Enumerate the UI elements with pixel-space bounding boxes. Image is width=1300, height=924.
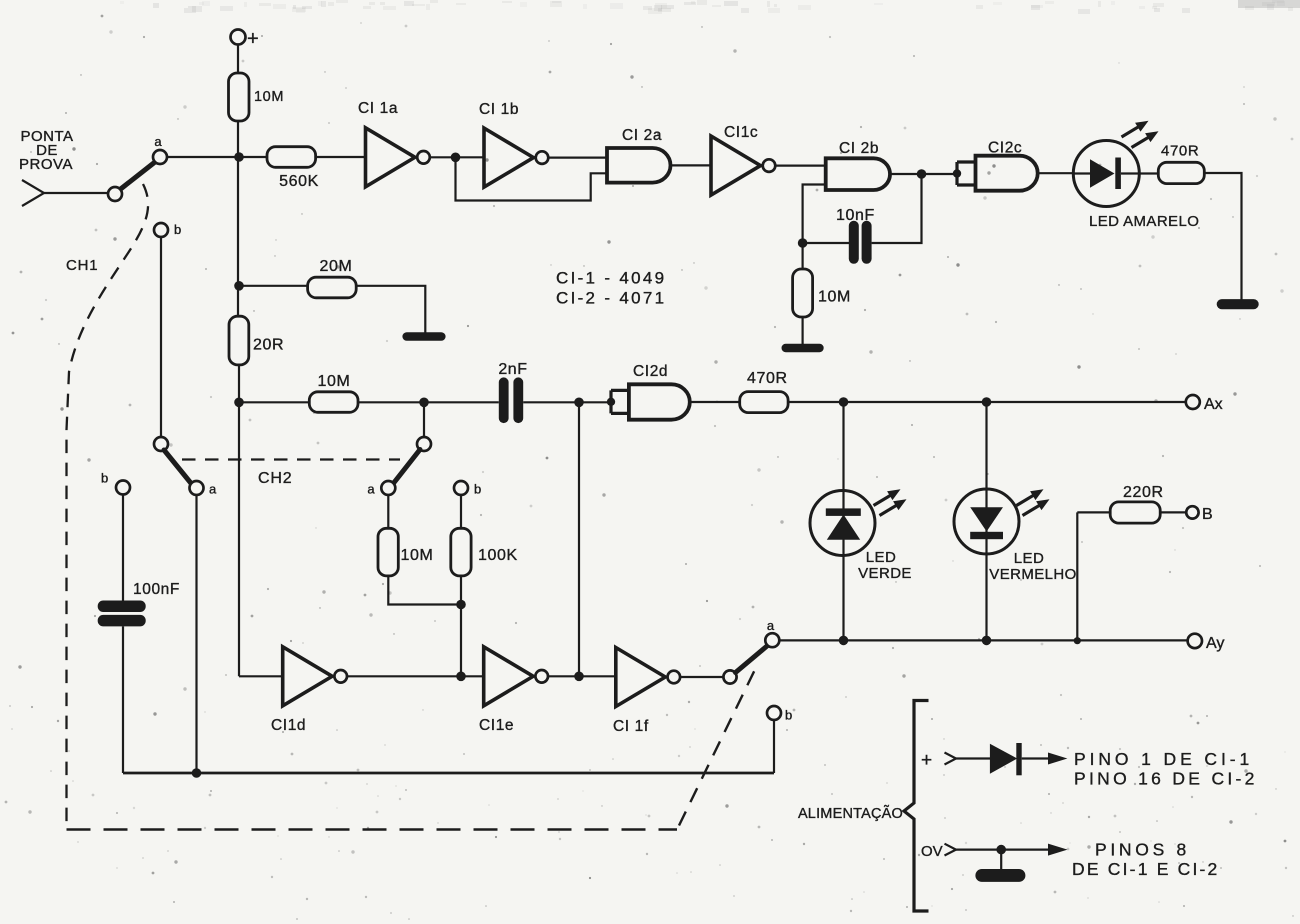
- svg-text:10M: 10M: [401, 547, 434, 564]
- svg-text:CI 2a: CI 2a: [622, 127, 662, 144]
- svg-text:CH1: CH1: [66, 257, 98, 274]
- svg-text:CI-2 - 4071: CI-2 - 4071: [556, 289, 666, 308]
- svg-text:100K: 100K: [478, 547, 518, 564]
- svg-text:PINOS 8: PINOS 8: [1095, 840, 1190, 860]
- svg-text:DE CI-1 E CI-2: DE CI-1 E CI-2: [1072, 859, 1220, 879]
- svg-text:b: b: [101, 471, 108, 486]
- svg-text:CH2: CH2: [258, 470, 292, 487]
- svg-text:PROVA: PROVA: [19, 156, 73, 173]
- svg-text:20M: 20M: [320, 258, 353, 275]
- svg-text:CI 1a: CI 1a: [358, 100, 398, 117]
- svg-text:PINO 1 DE CI-1: PINO 1 DE CI-1: [1074, 749, 1253, 769]
- svg-text:470R: 470R: [747, 370, 788, 387]
- svg-text:CI 2b: CI 2b: [839, 140, 879, 157]
- svg-text:Ay: Ay: [1206, 635, 1224, 652]
- svg-text:+: +: [921, 750, 932, 771]
- svg-text:470R: 470R: [1161, 143, 1199, 160]
- svg-text:a: a: [209, 482, 217, 497]
- svg-text:CI2d: CI2d: [633, 363, 668, 380]
- svg-text:CI 1b: CI 1b: [479, 101, 519, 118]
- svg-text:LED: LED: [1014, 550, 1044, 567]
- svg-text:100nF: 100nF: [133, 581, 180, 598]
- svg-text:b: b: [174, 222, 181, 237]
- svg-text:10nF: 10nF: [836, 207, 875, 224]
- svg-text:VERMELHO: VERMELHO: [989, 566, 1076, 583]
- svg-text:10M: 10M: [254, 89, 284, 105]
- svg-text:PINO 16 DE CI-2: PINO 16 DE CI-2: [1074, 769, 1258, 789]
- svg-text:a: a: [154, 134, 162, 149]
- svg-text:a: a: [367, 482, 375, 497]
- svg-text:OV: OV: [921, 843, 943, 860]
- svg-text:2nF: 2nF: [498, 361, 527, 378]
- svg-text:B: B: [1202, 506, 1213, 523]
- svg-text:10M: 10M: [818, 289, 851, 306]
- svg-text:CI 1f: CI 1f: [613, 718, 649, 735]
- svg-text:LED AMARELO: LED AMARELO: [1089, 213, 1199, 230]
- svg-text:CI1e: CI1e: [479, 717, 514, 734]
- svg-text:20R: 20R: [253, 337, 284, 354]
- svg-text:220R: 220R: [1123, 484, 1164, 501]
- svg-text:VERDE: VERDE: [858, 565, 912, 582]
- svg-text:+: +: [247, 28, 259, 50]
- svg-text:ALIMENTAÇÃO: ALIMENTAÇÃO: [798, 805, 903, 822]
- svg-text:CI1d: CI1d: [271, 717, 306, 734]
- svg-text:b: b: [785, 708, 792, 723]
- svg-text:a: a: [767, 618, 775, 633]
- svg-text:LED: LED: [866, 549, 896, 566]
- svg-text:10M: 10M: [318, 373, 351, 390]
- svg-text:560K: 560K: [279, 173, 319, 190]
- svg-text:b: b: [474, 482, 481, 497]
- svg-text:Ax: Ax: [1204, 396, 1223, 413]
- svg-text:CI1c: CI1c: [724, 124, 758, 141]
- svg-text:CI-1 - 4049: CI-1 - 4049: [556, 269, 666, 288]
